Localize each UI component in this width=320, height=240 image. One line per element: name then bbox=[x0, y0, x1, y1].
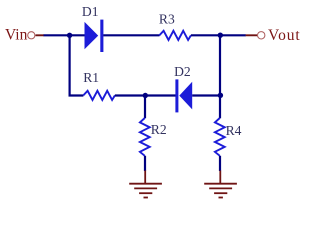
wire Vin to D1 bbox=[44, 34, 85, 36]
wire D1 to R3 bbox=[103, 34, 159, 36]
wire R2 to ground stub bbox=[144, 156, 146, 171]
wire D2 to J4 bbox=[192, 94, 220, 96]
wire R4 to ground stub bbox=[219, 156, 221, 171]
wire J3 to D2 bbox=[145, 94, 175, 96]
wire J3 down to R2 bbox=[144, 96, 146, 119]
junction J1 bbox=[67, 33, 72, 38]
svg-text:D1: D1 bbox=[82, 4, 99, 19]
svg-text:R4: R4 bbox=[226, 123, 242, 138]
wire J2 down to J4 and R4 bbox=[219, 35, 221, 118]
terminal Vin bbox=[28, 32, 35, 39]
terminal Vout bbox=[258, 32, 265, 39]
junction J2 bbox=[218, 33, 223, 38]
svg-text:R3: R3 bbox=[159, 11, 175, 26]
ground GND1 bbox=[129, 171, 162, 198]
diode D1 bbox=[85, 20, 104, 52]
wire Vout stub (maroon) bbox=[246, 34, 258, 36]
resistor R1 bbox=[83, 91, 115, 100]
svg-text:Vin: Vin bbox=[5, 27, 28, 44]
wire Vin stub (maroon) bbox=[36, 34, 45, 36]
resistor R3 bbox=[159, 31, 191, 40]
wire J1 down to row2 bbox=[70, 35, 84, 95]
junction J3 bbox=[143, 93, 148, 98]
ground GND2 bbox=[204, 171, 237, 198]
wire R3 to J2 bbox=[191, 34, 246, 36]
diode D2 bbox=[175, 79, 192, 112]
svg-text:Vout: Vout bbox=[268, 27, 301, 44]
junction J4 bbox=[218, 93, 223, 98]
svg-text:D2: D2 bbox=[174, 64, 191, 79]
svg-text:R2: R2 bbox=[151, 122, 167, 137]
svg-text:R1: R1 bbox=[83, 70, 99, 85]
resistor R2 bbox=[140, 118, 150, 156]
resistor R4 bbox=[215, 118, 225, 156]
wire R1 to J3 bbox=[115, 94, 145, 96]
